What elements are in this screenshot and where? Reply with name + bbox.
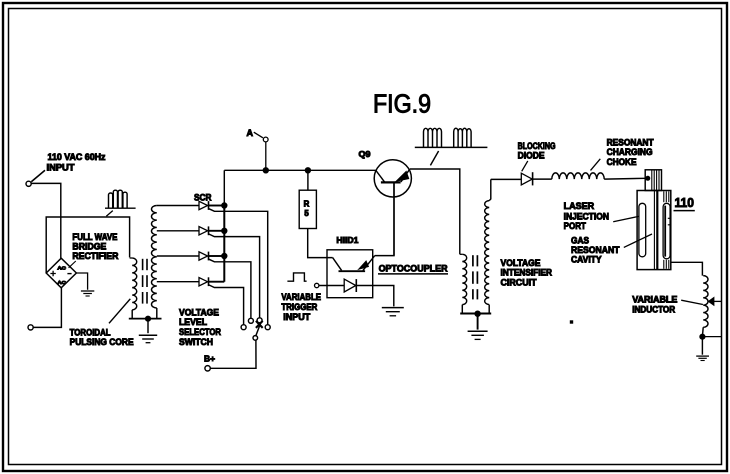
svg-text:CHOKE: CHOKE <box>607 157 637 167</box>
svg-text:VOLTAGE: VOLTAGE <box>501 258 541 268</box>
svg-text:AC: AC <box>57 265 66 270</box>
svg-text:VARIABLE: VARIABLE <box>632 294 677 304</box>
svg-text:CHARGING: CHARGING <box>607 147 653 157</box>
svg-text:TOROIDAL: TOROIDAL <box>70 328 111 338</box>
svg-text:RECTIFIER: RECTIFIER <box>72 251 118 261</box>
svg-text:LEVEL: LEVEL <box>179 317 207 327</box>
svg-text:RESONANT: RESONANT <box>607 137 654 147</box>
svg-text:AC: AC <box>57 280 66 285</box>
svg-text:110: 110 <box>675 195 695 210</box>
svg-text:DIODE: DIODE <box>518 151 545 161</box>
svg-text:CIRCUIT: CIRCUIT <box>501 277 537 287</box>
svg-text:5: 5 <box>304 209 309 218</box>
svg-text:INTENSIFIER: INTENSIFIER <box>501 268 553 278</box>
svg-text:GAS: GAS <box>571 236 589 246</box>
svg-text:INPUT: INPUT <box>283 312 310 322</box>
svg-text:INJECTION: INJECTION <box>564 211 610 221</box>
svg-text:RESONANT: RESONANT <box>571 245 620 255</box>
svg-text:BLOCKING: BLOCKING <box>518 141 556 151</box>
svg-text:R: R <box>304 200 310 209</box>
svg-text:INPUT: INPUT <box>47 162 75 172</box>
svg-text:SELECTOR: SELECTOR <box>179 327 221 337</box>
svg-text:BRIDGE: BRIDGE <box>72 241 106 251</box>
svg-text:VARIABLE: VARIABLE <box>281 292 321 302</box>
svg-text:110 VAC 60Hz: 110 VAC 60Hz <box>48 152 106 162</box>
svg-text:LASER: LASER <box>564 201 595 211</box>
svg-text:PORT: PORT <box>564 221 587 231</box>
svg-text:OPTOCOUPLER: OPTOCOUPLER <box>379 263 448 274</box>
svg-text:FULL WAVE: FULL WAVE <box>72 232 117 242</box>
svg-text:HIID1: HIID1 <box>336 235 358 245</box>
svg-text:INDUCTOR: INDUCTOR <box>632 304 675 314</box>
svg-text:PULSING CORE: PULSING CORE <box>70 337 134 347</box>
svg-text:TRIGGER: TRIGGER <box>281 302 317 312</box>
svg-text:Q9: Q9 <box>359 149 371 159</box>
svg-text:B+: B+ <box>204 354 215 364</box>
svg-text:SCR: SCR <box>194 193 212 203</box>
svg-text:CAVITY: CAVITY <box>571 255 602 265</box>
svg-text:SWITCH: SWITCH <box>179 337 213 347</box>
svg-text:VOLTAGE: VOLTAGE <box>179 307 219 317</box>
svg-text:FIG.9: FIG.9 <box>373 91 431 119</box>
svg-text:A: A <box>247 128 254 138</box>
